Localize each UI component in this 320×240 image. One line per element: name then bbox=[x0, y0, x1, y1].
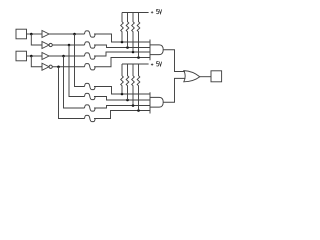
resistor R4 bbox=[85, 64, 96, 70]
resistor R8 bbox=[85, 115, 96, 121]
pullup resistor RP3 bbox=[132, 13, 135, 53]
node R4 junction dot bbox=[57, 65, 60, 68]
AND gate U2 body bbox=[150, 97, 163, 107]
output box bbox=[211, 71, 222, 82]
wire B1 to AND2 pin1 bbox=[94, 87, 150, 95]
+5V label top bbox=[151, 9, 162, 13]
+5V label bottom bbox=[151, 62, 162, 66]
node B junction dot bbox=[30, 55, 33, 58]
wire U2 output to OR input 2 bbox=[163, 78, 185, 102]
pullup resistor RP1 bbox=[121, 13, 124, 43]
wire branch B2 drop bbox=[69, 45, 85, 97]
node R2 junction dot bbox=[68, 44, 71, 47]
wire row3 to AND1 pin3 bbox=[94, 52, 150, 56]
AND gate U2 input bar bbox=[149, 92, 151, 113]
input box J2 bbox=[16, 51, 27, 61]
input box J1 bbox=[16, 29, 27, 39]
pullup resistor RP8 bbox=[137, 64, 140, 111]
wire J1 to node A bbox=[27, 33, 43, 35]
AND gate U1 body bbox=[150, 45, 163, 55]
inverter G4 bubble bbox=[49, 65, 52, 68]
inverter G2 bubble bbox=[49, 43, 52, 46]
buffer G3 bbox=[42, 53, 49, 60]
+5V rail bottom bbox=[122, 63, 149, 65]
node R3 junction dot bbox=[62, 55, 65, 58]
junction dot pullup2b bbox=[126, 99, 129, 102]
pullup resistor RP2 bbox=[126, 13, 129, 48]
inverter G2 bbox=[42, 42, 49, 49]
node A junction dot bbox=[30, 33, 33, 36]
junction dot pullup4a bbox=[137, 56, 140, 59]
pullup resistor RP4 bbox=[137, 13, 140, 58]
wire row4 to AND1 pin4 bbox=[94, 58, 150, 67]
wire row2 from G2 bbox=[52, 44, 84, 46]
buffer G1 bbox=[42, 31, 49, 38]
wire B4 to AND2 pin4 bbox=[94, 111, 150, 119]
resistor R6 bbox=[85, 93, 96, 99]
wire OR output to box bbox=[200, 76, 211, 78]
pullup resistor RP5 bbox=[121, 64, 124, 94]
wire node B down to G4 input bbox=[31, 56, 42, 67]
inverter G4 bbox=[42, 63, 49, 70]
resistor R2 bbox=[85, 42, 96, 48]
junction dot pullup3b bbox=[132, 104, 135, 107]
resistor R5 bbox=[85, 83, 96, 89]
OR gate U3 bbox=[184, 71, 200, 82]
wire branch B1 drop bbox=[75, 34, 85, 87]
junction dot pullup3a bbox=[132, 51, 135, 54]
AND gate U1 input bar bbox=[149, 40, 151, 61]
wire branch B3 drop bbox=[64, 56, 85, 108]
wire row1 from G1 bbox=[49, 33, 85, 35]
wire branch B4 drop bbox=[59, 67, 85, 119]
pullup resistor RP6 bbox=[126, 64, 129, 100]
wire node A down to G2 input bbox=[31, 34, 42, 45]
resistor R7 bbox=[85, 105, 96, 111]
junction dot pullup1a bbox=[121, 41, 124, 44]
+5V rail top bbox=[122, 12, 149, 14]
wire B2 to AND2 pin2 bbox=[94, 97, 150, 101]
resistor R3 bbox=[85, 53, 96, 59]
pullup resistor RP7 bbox=[132, 64, 135, 106]
junction dot pullup1b bbox=[121, 93, 124, 96]
node R1 junction dot bbox=[73, 33, 76, 36]
resistor R1 bbox=[85, 31, 96, 37]
wire row2 to AND1 pin2 bbox=[94, 45, 150, 48]
wire U1 output to OR input 1 bbox=[163, 50, 185, 72]
wire row4 from G4 bbox=[52, 66, 84, 68]
wire B3 to AND2 pin3 bbox=[94, 106, 150, 109]
wire row3 from G3 bbox=[49, 55, 85, 57]
junction dot pullup2a bbox=[126, 46, 129, 49]
wire row1 to AND1 pin1 bbox=[94, 34, 150, 42]
wire J2 to node B bbox=[27, 55, 43, 57]
junction dot pullup4b bbox=[137, 109, 140, 112]
